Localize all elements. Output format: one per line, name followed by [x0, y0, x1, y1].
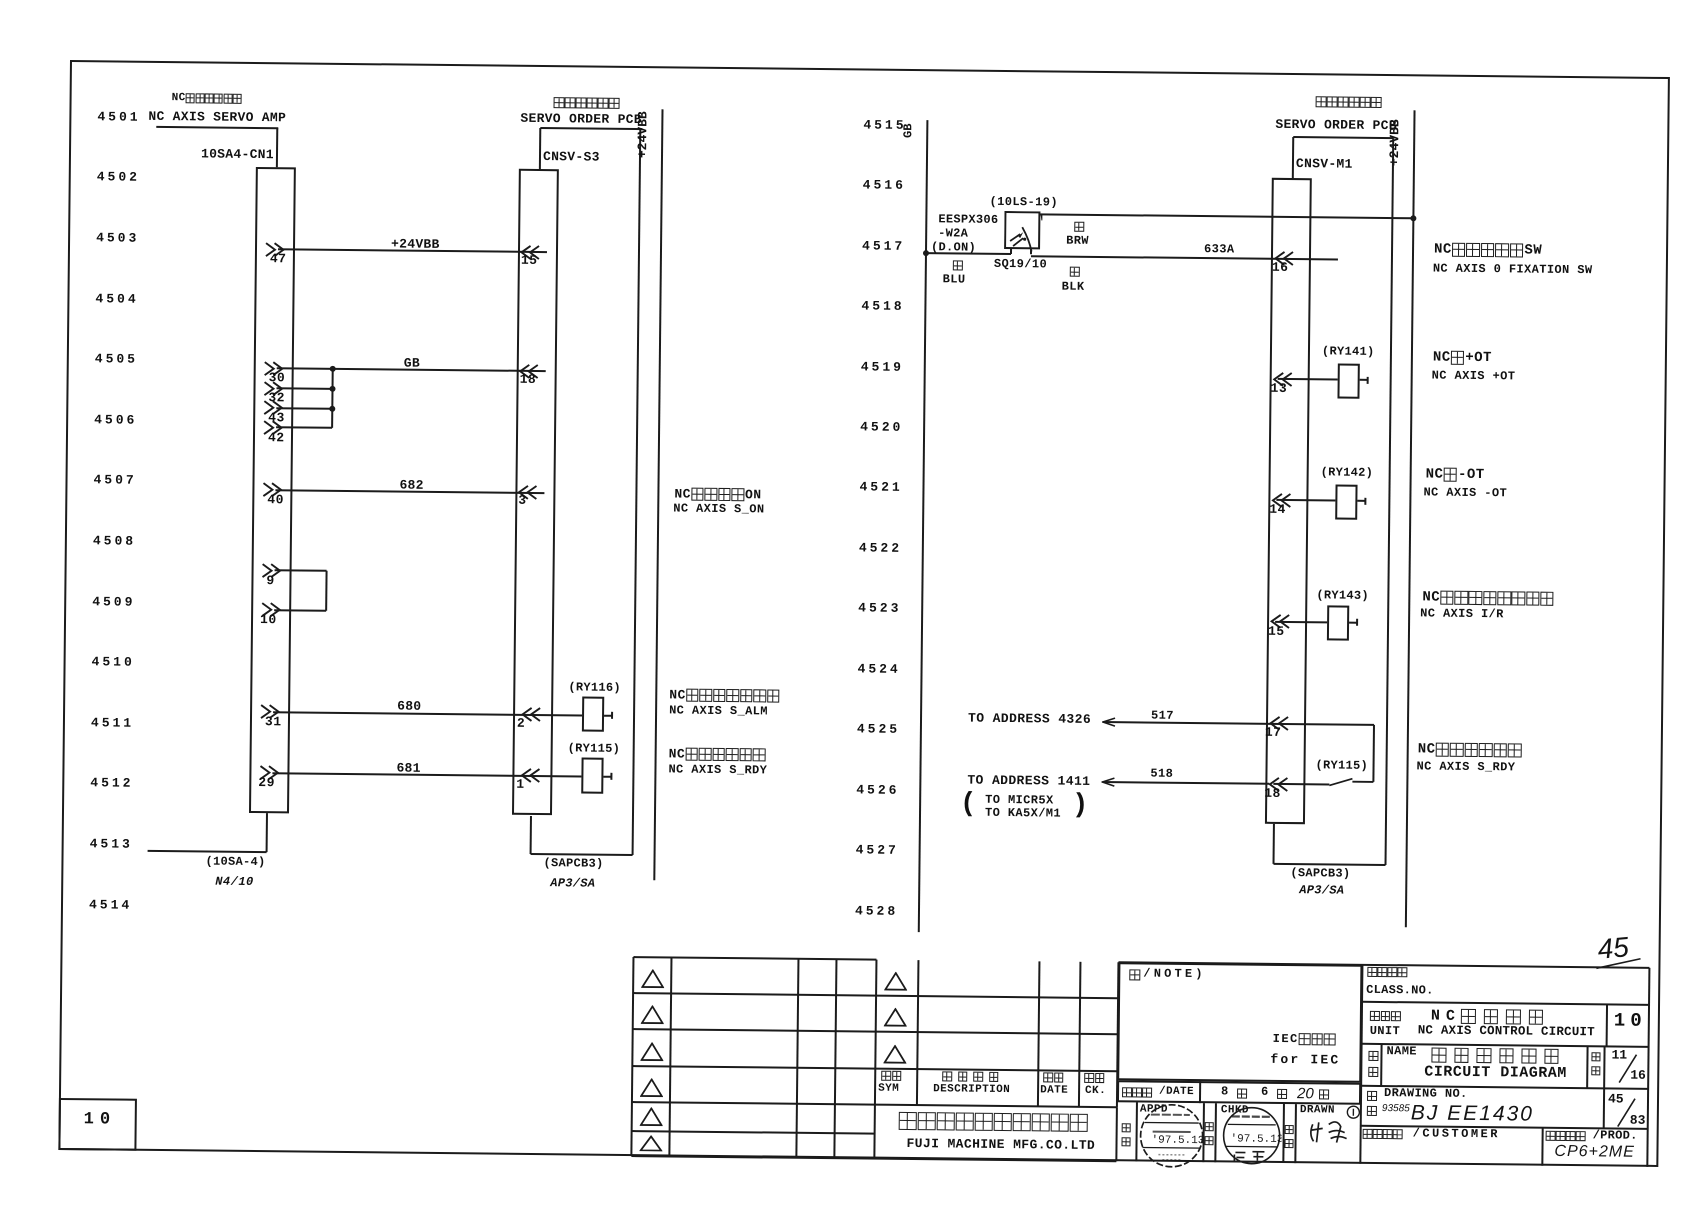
- row 4517: [862, 239, 905, 254]
- label (SAPCB3): [543, 857, 603, 871]
- connector CNSV-M1: [1265, 177, 1312, 824]
- rev1 row y1023: [633, 1028, 876, 1033]
- connector CNSV-S3: [512, 169, 559, 815]
- date row box: [1117, 1080, 1361, 1105]
- right pcb outline top: [1293, 136, 1393, 139]
- APPD: [1140, 1103, 1168, 1116]
- label NC-jiku interlock (kanji): [1422, 590, 1554, 606]
- right pcb outline bottom: [1273, 863, 1385, 866]
- pin32 arrow: [263, 381, 284, 396]
- CIRCUIT DIAGRAM: [1424, 1064, 1567, 1083]
- RY141 terminal tick: [1367, 376, 1369, 383]
- label NC-jiku servo alarm (kanji): [669, 688, 780, 703]
- sakuzu kanji stacked: [1285, 1125, 1296, 1134]
- wire pin14 RY142: [1276, 499, 1335, 502]
- date value 20 handwritten: [1297, 1086, 1314, 1101]
- net 680: [397, 699, 421, 714]
- DRAWN: [1300, 1104, 1335, 1117]
- rev2 col x928: [916, 960, 920, 1105]
- ban kanji: [1367, 1106, 1379, 1116]
- label BRW: [1066, 234, 1089, 248]
- row 4510: [92, 655, 135, 670]
- label NC AXIS S_ON: [673, 502, 764, 517]
- sheet number box: [58, 1098, 137, 1151]
- label EESPX306: [938, 213, 998, 227]
- label kuro (black kanji): [1070, 267, 1082, 277]
- unit number 10: [1614, 1010, 1647, 1032]
- row 4511: [91, 716, 134, 731]
- drawing num divider: [1603, 1088, 1605, 1128]
- rev1 triangle row2: [641, 1005, 664, 1024]
- label NC AXIS -OT: [1423, 486, 1507, 501]
- relay RY141: [1337, 364, 1359, 399]
- rev2 row y986.5: [876, 994, 1118, 999]
- label TO KA5X/M1: [985, 807, 1061, 822]
- title right edge: [1646, 967, 1650, 1167]
- pin18r arrow: [1268, 776, 1289, 791]
- header SYM: [878, 1083, 899, 1096]
- RY116 terminal tick: [611, 712, 613, 719]
- svg-text:'97.5.13: '97.5.13: [1151, 1135, 1204, 1148]
- row 4519: [861, 360, 904, 375]
- pin 43: [268, 411, 285, 426]
- bunrui bangou kanji: [1367, 967, 1407, 977]
- +24VBB bus right: [1405, 110, 1416, 927]
- wire header to connector 10SA4: [276, 128, 278, 168]
- label servo-order-pcb right (kanji): [1316, 96, 1383, 108]
- label SERVO ORDER PCB right: [1275, 118, 1397, 134]
- rev1 triangle row3: [640, 1042, 663, 1061]
- wire pin32 stub: [277, 388, 333, 391]
- row 4507: [93, 474, 136, 489]
- shousa kanji stacked 2: [1205, 1136, 1216, 1145]
- wire 517 riser: [1372, 725, 1375, 782]
- zu kanji: [1367, 1091, 1379, 1101]
- RY142 terminal tick: [1365, 497, 1367, 504]
- junction GB 4517: [923, 250, 929, 256]
- rev1 col x681: [668, 957, 672, 1157]
- row 4508: [93, 534, 136, 549]
- rev1 row y986.5: [633, 992, 876, 997]
- row 4522: [859, 541, 902, 556]
- page kanji stacked2: [1591, 1066, 1602, 1075]
- label BLK: [1062, 280, 1085, 294]
- header DATE: [1040, 1084, 1068, 1097]
- RY116 right stub: [604, 714, 612, 716]
- sheet 45: [1608, 1092, 1624, 1107]
- shounin kanji stacked: [1122, 1123, 1133, 1132]
- label NC-jiku servo ON (kanji): [674, 487, 761, 502]
- pin29 arrow: [259, 765, 280, 780]
- shousa kanji stacked: [1205, 1122, 1216, 1131]
- mei kanji: [1368, 1051, 1380, 1061]
- wire 633A switch to pin16: [1031, 255, 1338, 260]
- switch pin right: [1030, 249, 1032, 255]
- connector 10SA4-CN1: [248, 167, 295, 813]
- wire pin13 RY141: [1278, 378, 1338, 381]
- wire pin15 RY143: [1275, 621, 1327, 624]
- row 4523: [858, 602, 901, 617]
- UNIT: [1370, 1025, 1401, 1039]
- note /NOTE): [1143, 967, 1206, 981]
- label servo-order-pcb left (kanji): [554, 97, 621, 109]
- wire 518: [1102, 781, 1269, 785]
- date row divider: [1199, 1081, 1201, 1103]
- handwritten 45: [1596, 933, 1630, 964]
- wire pin43 stub: [276, 407, 332, 410]
- svg-text:'97.5.13: '97.5.13: [1231, 1133, 1282, 1146]
- pin2 arrow: [521, 707, 542, 722]
- stamp approver: [1138, 1102, 1205, 1173]
- label cha (brown kanji): [1074, 222, 1086, 232]
- row 4521: [859, 481, 902, 496]
- classno bottom: [1362, 1000, 1649, 1005]
- drawing number BJ EE1430 handwritten: [1411, 1102, 1534, 1124]
- rev2 header bottom: [875, 1103, 1117, 1108]
- label (SAPCB3) right: [1290, 867, 1350, 881]
- page num divider: [1603, 1046, 1605, 1088]
- pin17 arrow: [1269, 716, 1290, 731]
- date kanji hi: [1319, 1089, 1331, 1099]
- label NC-jiku -OT (kanji): [1426, 467, 1485, 482]
- junction 32: [329, 386, 335, 392]
- pin15 arrow: [520, 245, 541, 260]
- row 4520: [860, 420, 903, 435]
- label CNSV-M1: [1296, 157, 1353, 173]
- pcb stub below connector: [530, 816, 532, 854]
- NAME: [1386, 1045, 1417, 1059]
- arrow to address 1411: [1101, 777, 1115, 787]
- label TO ADDRESS 1411: [967, 773, 1090, 789]
- rev1 triangle row5: [640, 1107, 663, 1126]
- rev1 row y950.5: [633, 956, 876, 961]
- pin 18 right: [1264, 786, 1281, 801]
- pin 3: [518, 493, 526, 508]
- pin43 arrow: [263, 400, 284, 415]
- RY143 terminal tick: [1356, 619, 1358, 626]
- wire +24VBB 47-15: [278, 249, 547, 254]
- limit switch SQ19/10 box: [1004, 211, 1042, 251]
- RY115 terminal tick: [611, 773, 613, 780]
- unit NC AXIS CONTROL CIRCUIT: [1418, 1023, 1595, 1039]
- pin 15: [521, 253, 538, 268]
- label ao (blue kanji): [953, 260, 965, 270]
- rev2 col x1090: [1078, 961, 1082, 1106]
- label NC AXIS S_ALM: [669, 704, 768, 719]
- label NC-jiku zero settei SW (kanji): [1434, 243, 1542, 259]
- date kanji tsuki: [1277, 1089, 1289, 1099]
- date row /DATE: [1159, 1086, 1194, 1099]
- pin30 arrow: [264, 361, 285, 376]
- label NC AXIS SERVO AMP: [148, 110, 286, 126]
- label N4/10: [215, 875, 254, 889]
- row 4503: [96, 231, 139, 246]
- pin40 arrow: [262, 482, 283, 497]
- date value 6: [1261, 1086, 1268, 1100]
- page 16: [1630, 1068, 1646, 1083]
- pin13 arrow: [1273, 371, 1294, 386]
- row 4512: [90, 777, 133, 792]
- pcb outline left upper: [539, 128, 541, 171]
- label NC-jiku servo ready left (kanji): [669, 747, 767, 762]
- +24VBB bus label right: [1388, 119, 1401, 166]
- net 633A: [1204, 243, 1235, 257]
- pin 30: [269, 371, 286, 386]
- pin3 arrow: [517, 485, 538, 500]
- label (D.ON): [931, 241, 976, 255]
- CUSTOMER: [1413, 1127, 1500, 1142]
- row 4527: [856, 844, 899, 859]
- wire pin18 to contact: [1273, 783, 1329, 786]
- pin 14: [1269, 502, 1286, 517]
- pin 10: [260, 613, 277, 628]
- name/page divider: [1586, 1046, 1588, 1088]
- date row kanji 年月日: [1122, 1087, 1152, 1097]
- pin 29: [258, 776, 275, 791]
- header DESCRIPTION: [933, 1083, 1010, 1096]
- rev2/company bottom: [631, 1155, 1116, 1162]
- GB bus: [918, 120, 929, 932]
- GB bus label: [902, 123, 914, 138]
- rev1 col x886: [873, 959, 877, 1159]
- wire 681 29-1: [272, 772, 581, 777]
- pin 16: [1272, 260, 1289, 275]
- jumper 30-32-43-42: [331, 369, 334, 428]
- pin 1: [516, 777, 524, 792]
- label AP3/SA left: [550, 877, 595, 891]
- relay contact RY115: [1327, 775, 1375, 788]
- name col divider: [1380, 1044, 1382, 1086]
- label -W2A: [938, 227, 968, 241]
- label (RY141): [1322, 345, 1375, 359]
- row 4525: [857, 723, 900, 738]
- rev1 triangle row1: [641, 969, 664, 988]
- rev2 row y1060: [875, 1068, 1117, 1073]
- label SQ19/10: [994, 258, 1047, 272]
- customer/prod divider: [1541, 1128, 1543, 1166]
- sheet 83: [1630, 1113, 1646, 1128]
- rev1 row y1060: [632, 1065, 875, 1070]
- pin1 arrow: [520, 768, 541, 783]
- row 4505: [95, 352, 138, 367]
- seisan bangou kanji: [1546, 1131, 1586, 1141]
- row 4526: [856, 783, 899, 798]
- IEC kikaku-ki line: [1273, 1033, 1337, 1046]
- shou kanji: [1368, 1067, 1380, 1077]
- prod number CP6+2ME handwritten: [1554, 1144, 1635, 1161]
- net 681: [396, 761, 420, 776]
- pcb outline right: [632, 129, 642, 855]
- wire 4513 riser: [266, 813, 268, 852]
- rev2 triangle row1: [884, 971, 907, 990]
- +24VBB bus label left: [636, 111, 649, 158]
- net GB: [404, 356, 420, 371]
- net 682: [399, 478, 423, 493]
- signature esaka: [1307, 1116, 1357, 1147]
- small 93585: [1382, 1104, 1410, 1114]
- pin14 arrow: [1271, 492, 1292, 507]
- pin 2: [517, 716, 525, 731]
- pin9 arrow: [261, 563, 282, 578]
- rev2 right edge lower: [1115, 1107, 1118, 1162]
- junction 30: [330, 366, 336, 372]
- header kigou (kanji): [881, 1071, 902, 1081]
- stamp col x1307: [1294, 1104, 1297, 1163]
- rev2 triangle row3: [883, 1045, 906, 1064]
- right pcb outline right: [1385, 138, 1395, 865]
- rev1 row y1095.5: [632, 1101, 875, 1106]
- stamp col x1148: [1135, 1102, 1138, 1161]
- sheet slash: [1611, 1096, 1641, 1128]
- right pcb outline left upper: [1292, 137, 1294, 180]
- loop 9-10: [325, 571, 327, 611]
- stamp col x1227: [1214, 1103, 1217, 1162]
- sakuzu kanji stacked 2: [1284, 1139, 1295, 1148]
- pin47 arrow: [265, 242, 286, 257]
- title top edge: [1118, 961, 1649, 969]
- date value 8: [1221, 1085, 1228, 1099]
- relay RY143: [1327, 605, 1349, 640]
- rev2 col x1049: [1037, 961, 1041, 1106]
- pin16 arrow: [1274, 251, 1295, 266]
- wire 633A GB to switch: [926, 253, 1011, 256]
- date kanji nen: [1237, 1088, 1249, 1098]
- paren right micr5x: [1072, 791, 1089, 822]
- RY143 right stub: [1349, 621, 1357, 623]
- row 4513: [90, 837, 133, 852]
- +24VBB bus left: [653, 109, 663, 880]
- kishu-mei kanji: [1370, 1011, 1402, 1021]
- underline servo amp: [156, 125, 278, 128]
- pcb outline top: [540, 127, 642, 130]
- pin 9: [266, 574, 274, 589]
- pin31 arrow: [260, 704, 281, 719]
- label CNSV-S3: [543, 150, 600, 166]
- label NC AXIS 0 FIXATION SW: [1433, 262, 1593, 277]
- for IEC: [1270, 1053, 1340, 1069]
- page kanji stacked: [1591, 1052, 1602, 1061]
- CHKD: [1221, 1104, 1249, 1117]
- pin 40: [267, 493, 284, 508]
- sheet number 10: [84, 1110, 117, 1130]
- wire pin10 stub: [274, 609, 326, 612]
- label NC AXIS I/R: [1420, 607, 1504, 622]
- pin 32: [268, 391, 285, 406]
- unit title NC-jiku seigyo kairo: [1431, 1009, 1551, 1026]
- label (RY142): [1321, 466, 1374, 480]
- pin10 arrow: [261, 602, 282, 617]
- net +24VBB: [391, 237, 440, 252]
- label (RY143): [1316, 589, 1369, 603]
- stamp col x1295: [1282, 1104, 1285, 1163]
- header hiduke (kanji): [1043, 1072, 1064, 1082]
- rev1 triangle row4: [640, 1078, 663, 1097]
- title main divider: [1359, 964, 1363, 1164]
- underline of 45: [1594, 956, 1642, 971]
- rev1 col x846: [833, 959, 837, 1159]
- unit row bottom: [1362, 1043, 1649, 1048]
- DRAWING NO.: [1384, 1087, 1468, 1102]
- paren left micr5x: [960, 790, 977, 821]
- header tantou (kanji): [1084, 1073, 1105, 1083]
- header teisei kiroku (kanji): [942, 1071, 1004, 1082]
- pin15r arrow: [1270, 614, 1291, 629]
- label NC AXIS +OT: [1432, 369, 1516, 384]
- wire pin9 stub: [275, 569, 327, 572]
- arrow to address 4326: [1102, 717, 1116, 727]
- row 4504: [95, 292, 138, 307]
- stamp col x1215: [1202, 1103, 1205, 1162]
- rev2 col x1128: [1116, 962, 1120, 1107]
- junction 43: [329, 405, 335, 411]
- RY141 right stub: [1360, 379, 1368, 381]
- label NC AXIS S_RDY left: [668, 763, 767, 778]
- pin 18: [520, 372, 537, 387]
- relay RY116: [582, 696, 604, 731]
- pin 42: [268, 431, 285, 446]
- wire pin42 stub: [276, 426, 332, 429]
- page 11: [1611, 1048, 1627, 1063]
- pin 47: [270, 252, 287, 267]
- unit '10' cell divider: [1606, 1004, 1608, 1047]
- rev1 row y1124.5: [632, 1130, 875, 1135]
- pin 31: [265, 715, 282, 730]
- name denki kairo senzu kanji: [1431, 1048, 1566, 1064]
- pin18 arrow: [519, 364, 540, 379]
- rev1 col x808: [795, 958, 799, 1158]
- pcb outline bottom: [531, 853, 633, 856]
- wire 680 31-2: [273, 711, 582, 716]
- PROD.: [1593, 1129, 1638, 1143]
- right pcb stub below connector: [1273, 824, 1275, 864]
- net 518: [1150, 767, 1173, 781]
- label (RY115) right: [1315, 759, 1368, 773]
- CLASS.NO.: [1366, 984, 1434, 999]
- pin42 arrow: [263, 420, 284, 435]
- label (10LS-19): [989, 196, 1058, 211]
- switch pin left: [1010, 249, 1012, 255]
- header CK.: [1085, 1085, 1106, 1098]
- row 4516: [863, 179, 906, 194]
- RY115 right stub: [603, 775, 611, 777]
- user-mei kanji: [1363, 1129, 1403, 1139]
- label (10SA-4): [205, 855, 265, 869]
- rev1 col x643: [630, 957, 634, 1157]
- RY142 right stub: [1357, 500, 1365, 502]
- row 4528: [855, 904, 898, 919]
- label NC-jiku servo ready right (kanji): [1418, 742, 1523, 758]
- net 517: [1151, 709, 1174, 723]
- relay RY115 coil: [581, 757, 603, 793]
- label BLU: [943, 273, 966, 287]
- row 4515: [863, 118, 906, 133]
- shounin kanji stacked 2: [1121, 1137, 1132, 1146]
- pin 15 right: [1268, 624, 1285, 639]
- company FUJI MACHINE MFG.CO.LTD: [906, 1137, 1095, 1154]
- wire 682 40-3: [275, 489, 544, 494]
- drawing row bottom: [1361, 1125, 1648, 1130]
- page slash: [1613, 1052, 1643, 1084]
- row 4501: [97, 110, 140, 125]
- wire 517: [1103, 721, 1374, 726]
- row 4518: [861, 299, 904, 314]
- note kanji: [1129, 969, 1142, 980]
- label NC-jiku +OT (kanji): [1433, 351, 1492, 366]
- company name kanji: [899, 1112, 1089, 1132]
- pin 13: [1270, 381, 1287, 396]
- label 10SA4-CN1: [201, 147, 274, 163]
- wire 4513 entry: [148, 850, 267, 853]
